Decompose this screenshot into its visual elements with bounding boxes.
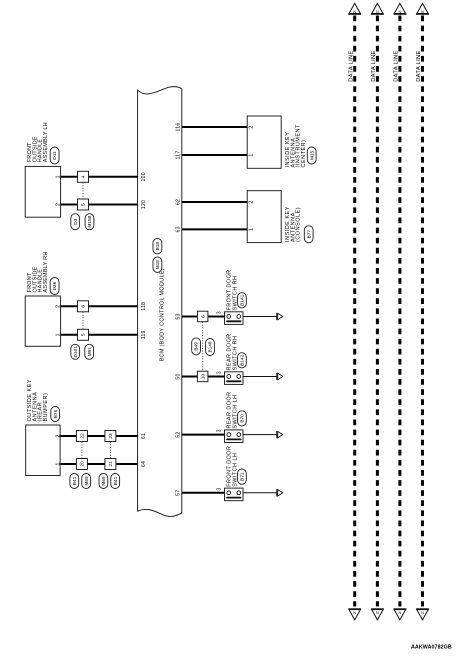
connector B49: [192, 338, 201, 355]
inline connector pin 5: [78, 329, 89, 340]
svg-text:B71: B71: [240, 472, 246, 481]
connector B76: [51, 407, 60, 422]
CAN data line 3: [394, 3, 407, 620]
svg-text:6: 6: [200, 315, 206, 318]
wire BCM pin 63 to B77 pin 1: [182, 228, 247, 230]
BCM pin 119: [141, 330, 147, 339]
wire switch to ground: [243, 434, 277, 436]
ground: [277, 489, 283, 496]
svg-text:1: 1: [55, 462, 61, 465]
pin 2: [55, 434, 61, 437]
pin 1: [249, 228, 255, 231]
connector D36: [50, 278, 59, 295]
svg-text:23: 23: [108, 433, 114, 439]
inline connector pin 5: [78, 199, 89, 210]
FRONT DOOR SWITCH LH switch box: [225, 446, 244, 501]
svg-text:D11: D11: [52, 151, 58, 160]
inline connector pin 6: [197, 311, 208, 322]
wire BCM pin 116 to M15 pin 2: [182, 126, 247, 128]
connector B148: [206, 339, 215, 356]
inline connector pin 23: [105, 431, 116, 442]
ground: [277, 313, 283, 320]
connector B77: [304, 226, 313, 243]
BCM pin 63: [175, 226, 181, 232]
BCM pin 52: [175, 431, 181, 437]
inline connector pin 4: [78, 171, 89, 182]
svg-text:N: N: [399, 611, 402, 615]
pin 2: [55, 305, 61, 308]
BCM pin 64: [141, 461, 147, 467]
svg-text:DATA LINE: DATA LINE: [371, 50, 377, 81]
svg-text:10: 10: [200, 374, 206, 380]
svg-text:D101: D101: [73, 346, 79, 358]
BCM connector label M18: [153, 257, 162, 273]
svg-text:B76: B76: [53, 409, 59, 418]
CAN data line 2: [371, 3, 384, 620]
svg-text:M69: M69: [84, 476, 90, 486]
BCM pin 57: [175, 490, 181, 496]
svg-text:DATA LINE: DATA LINE: [416, 50, 422, 81]
BCM pin 50: [175, 373, 181, 379]
svg-text:ASSEMBLY RH: ASSEMBLY RH: [43, 251, 49, 292]
ground: [277, 431, 283, 438]
svg-text:6: 6: [81, 305, 87, 308]
svg-text:N: N: [421, 611, 424, 615]
BCM (Body Control Module) U1: [138, 87, 182, 517]
svg-text:22: 22: [80, 433, 86, 439]
connector M91: [85, 344, 94, 359]
svg-text:3: 3: [217, 487, 223, 490]
svg-text:2: 2: [55, 434, 61, 437]
svg-text:100: 100: [141, 172, 147, 181]
svg-text:N: N: [353, 10, 356, 14]
svg-text:1: 1: [55, 333, 61, 336]
svg-text:DATA LINE: DATA LINE: [394, 50, 400, 81]
BCM connector label B18: [153, 238, 162, 254]
svg-text:61: 61: [141, 433, 147, 439]
svg-text:1: 1: [249, 228, 255, 231]
svg-text:53: 53: [175, 313, 181, 319]
svg-text:117: 117: [175, 151, 181, 160]
pin 1: [55, 333, 61, 336]
REAR DOOR SWITCH RH switch box: [225, 333, 244, 384]
pin 1: [55, 462, 61, 465]
pin 2: [249, 125, 255, 128]
inline connector pin 21: [105, 459, 116, 470]
svg-text:2: 2: [249, 200, 255, 203]
svg-text:B49: B49: [194, 342, 200, 351]
wire pin1 B76 to BCM pin 64: [60, 463, 138, 465]
pin 2: [249, 200, 255, 203]
svg-text:64: 64: [141, 461, 147, 467]
svg-text:2: 2: [55, 203, 61, 206]
svg-text:N: N: [376, 10, 379, 14]
svg-text:N: N: [421, 10, 424, 14]
front outside handle assembly RH box: [25, 251, 60, 346]
wire BCM pin 62 to B77 pin 2: [182, 201, 247, 203]
svg-text:3: 3: [217, 371, 223, 374]
connector B142: [238, 353, 247, 368]
svg-text:63: 63: [175, 226, 181, 232]
dotted connector link M69/B41: [109, 442, 111, 458]
wire switch to ground: [243, 316, 277, 318]
pin 1: [249, 153, 255, 156]
BCM pin 100: [141, 172, 147, 181]
wire switch to ground: [243, 376, 277, 378]
pin 3: [217, 371, 223, 374]
connector D3: [71, 214, 80, 230]
connector D11: [50, 147, 59, 164]
svg-text:(CONSOLE): (CONSOLE): [296, 207, 302, 242]
svg-text:AAKWA0782GB: AAKWA0782GB: [411, 644, 452, 650]
ground: [277, 373, 283, 380]
pin 3: [217, 429, 223, 432]
inline connector pin 22: [76, 431, 87, 442]
svg-text:1: 1: [249, 153, 255, 156]
svg-text:N: N: [399, 10, 402, 14]
svg-text:B70: B70: [240, 414, 246, 423]
svg-text:B41: B41: [72, 476, 78, 485]
svg-text:M15: M15: [309, 151, 315, 161]
svg-text:M91: M91: [87, 347, 93, 357]
svg-text:57: 57: [175, 490, 181, 496]
wire BCM to REAR DOOR SWITCH RH: [182, 376, 225, 378]
wire pin1 D11 to BCM pin 100: [61, 176, 138, 178]
svg-text:2: 2: [249, 125, 255, 128]
dotted connector link D3/M158: [82, 183, 84, 199]
wire pin1 D36 to BCM pin 119: [61, 334, 138, 336]
wire BCM to FRONT DOOR SWITCH LH: [182, 492, 225, 494]
svg-text:3: 3: [217, 429, 223, 432]
svg-text:ASSEMBLY LH: ASSEMBLY LH: [43, 122, 49, 162]
wire switch to ground: [243, 492, 277, 494]
svg-text:52: 52: [175, 431, 181, 437]
svg-text:B141: B141: [240, 294, 246, 305]
inside key antenna (instrument center) box: [247, 116, 307, 168]
pin 3: [217, 487, 223, 490]
FRONT DOOR SWITCH RH switch box: [225, 269, 244, 324]
pin 2: [55, 203, 61, 206]
BCM pin 53: [175, 313, 181, 319]
svg-text:50: 50: [175, 373, 181, 379]
connector M158: [85, 214, 94, 230]
svg-text:B142: B142: [240, 354, 246, 365]
connector M15: [307, 147, 316, 164]
svg-text:M69: M69: [101, 476, 107, 486]
inside key antenna (console) box: [247, 191, 301, 243]
BCM pin 118: [141, 302, 147, 311]
svg-text:116: 116: [175, 123, 181, 132]
BCM pin 117: [175, 151, 181, 160]
inline connector pin 10: [197, 371, 208, 382]
inline connector pin 20: [76, 459, 87, 470]
svg-text:D3: D3: [73, 218, 79, 224]
pin 1: [55, 175, 61, 178]
svg-text:62: 62: [175, 199, 181, 205]
svg-text:D36: D36: [52, 281, 58, 290]
wire BCM pin 117 to M15 pin 1: [182, 154, 247, 156]
connector B70: [238, 411, 247, 426]
svg-text:21: 21: [108, 461, 114, 467]
connector B71: [238, 469, 247, 484]
svg-text:M158: M158: [87, 215, 93, 227]
dotted connector link B41/M69: [81, 442, 83, 458]
svg-text:CENTER): CENTER): [301, 140, 307, 168]
BCM pin 61: [141, 433, 147, 439]
svg-text:B41: B41: [113, 476, 119, 485]
connector B41: [70, 474, 79, 489]
wire pin2 B76 to BCM pin 61: [60, 435, 138, 437]
svg-text:DATA LINE: DATA LINE: [348, 50, 354, 81]
svg-text:5: 5: [81, 333, 87, 336]
svg-text:120: 120: [141, 200, 147, 209]
CAN data line 4: [416, 3, 429, 620]
inline connector pin 6: [78, 301, 89, 312]
connector M69: [99, 474, 108, 489]
BCM pin 62: [175, 199, 181, 205]
wire BCM to REAR DOOR SWITCH LH: [182, 434, 225, 436]
svg-text:BCM (BODY CONTROL MODULE): BCM (BODY CONTROL MODULE): [160, 268, 166, 361]
svg-text:119: 119: [141, 330, 147, 339]
svg-text:N: N: [376, 611, 379, 615]
connector B141: [238, 293, 247, 308]
wire pin2 D36 to BCM pin 118: [61, 305, 138, 307]
connector M69: [82, 474, 91, 489]
REAR DOOR SWITCH LH switch box: [225, 392, 244, 443]
dotted connector link B49/B148: [202, 322, 204, 371]
svg-text:BUMPER): BUMPER): [43, 393, 49, 422]
svg-text:2: 2: [55, 305, 61, 308]
CAN data line 1: [348, 3, 361, 620]
connector D101: [71, 344, 80, 359]
svg-text:M18: M18: [155, 260, 161, 270]
front outside handle assembly LH box: [25, 122, 60, 217]
svg-text:B77: B77: [306, 230, 312, 239]
BCM pin 120: [141, 200, 147, 209]
svg-text:3: 3: [217, 311, 223, 314]
dotted connector link D101/M91: [82, 312, 84, 329]
BCM pin 116: [175, 123, 181, 132]
svg-text:N: N: [353, 611, 356, 615]
svg-text:4: 4: [81, 175, 87, 178]
svg-text:118: 118: [141, 302, 147, 311]
wire pin2 D11 to BCM pin 120: [61, 204, 138, 206]
connector B41: [111, 474, 120, 489]
outside key antenna (rear bumper) box: [26, 379, 60, 475]
svg-text:B18: B18: [155, 242, 161, 251]
pin 3: [217, 311, 223, 314]
svg-text:1: 1: [55, 175, 61, 178]
svg-text:B148: B148: [208, 341, 214, 352]
wire BCM to FRONT DOOR SWITCH RH: [182, 316, 225, 318]
svg-text:20: 20: [80, 461, 86, 467]
svg-text:5: 5: [81, 203, 87, 206]
drawing number AAKWA0782GB: [411, 644, 452, 650]
